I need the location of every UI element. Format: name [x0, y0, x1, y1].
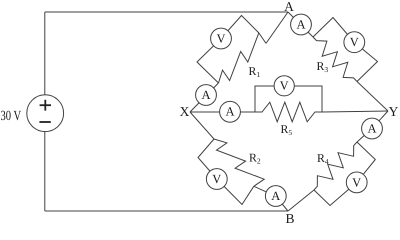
- svg-text:B: B: [285, 211, 294, 226]
- svg-text:R5: R5: [281, 122, 293, 137]
- svg-text:V: V: [350, 35, 359, 49]
- svg-text:A: A: [367, 121, 376, 135]
- svg-text:A: A: [284, 0, 294, 14]
- svg-text:V: V: [212, 172, 221, 186]
- svg-text:A: A: [201, 88, 210, 102]
- svg-text:V: V: [352, 175, 361, 189]
- svg-text:R1: R1: [249, 64, 261, 79]
- svg-text:A: A: [225, 105, 234, 119]
- svg-text:R4: R4: [317, 151, 329, 166]
- svg-text:R3: R3: [317, 59, 329, 74]
- svg-text:A: A: [296, 17, 305, 31]
- svg-text:V: V: [280, 79, 289, 93]
- svg-text:Y: Y: [389, 104, 399, 119]
- svg-text:X: X: [180, 104, 190, 119]
- svg-text:A: A: [271, 189, 280, 203]
- svg-text:30 V: 30 V: [1, 109, 22, 124]
- svg-text:R2: R2: [249, 151, 261, 166]
- svg-text:V: V: [216, 31, 225, 45]
